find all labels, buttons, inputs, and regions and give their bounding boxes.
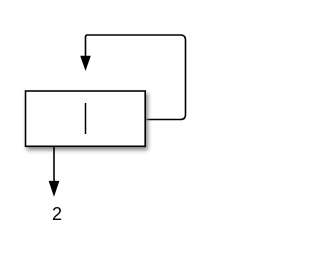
arrowhead of output wire xyxy=(49,181,58,195)
block B1 (rectangle with shadow) xyxy=(26,91,146,146)
wire feedback loop xyxy=(86,35,186,120)
arrowhead of feedback loop xyxy=(81,56,90,69)
svg-text:2: 2 xyxy=(52,204,62,224)
vertical bar inside block xyxy=(85,103,87,134)
wire output (downward) xyxy=(53,147,55,182)
